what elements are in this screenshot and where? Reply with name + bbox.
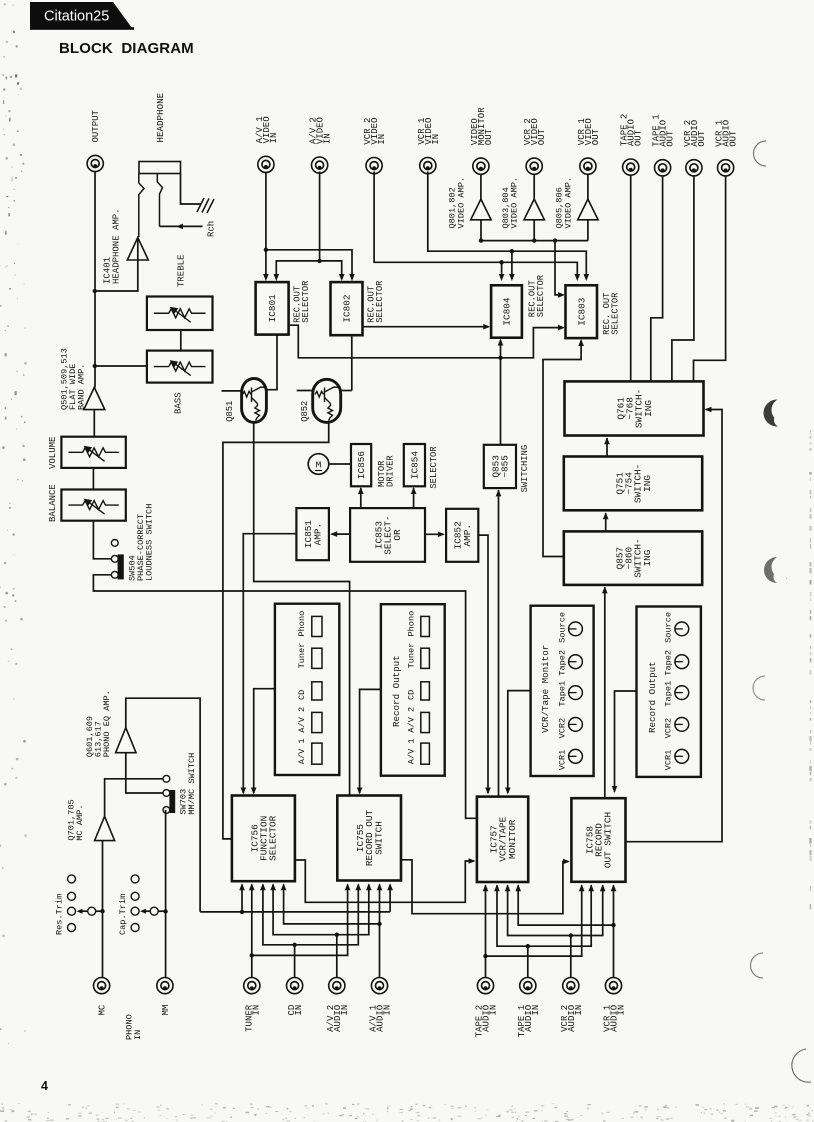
svg-text:IN: IN (133, 1030, 143, 1040)
wire IC801 output down to Q851 (266, 335, 277, 390)
IC IC853 selector logic (350, 508, 425, 562)
trimmer Res.Trim wiper (88, 907, 96, 915)
jack TUNER IN (244, 978, 260, 994)
jack VCR 1 AUDIO IN (605, 978, 621, 994)
scan left margin speckles (4, 134, 5, 135)
panel Record Output display left (381, 604, 445, 776)
svg-text:IN: IN (323, 133, 333, 144)
switch SW703 MM/MC lower contact (163, 807, 170, 814)
wire VCR 2 AUDIO IN to IC757/IC758 (569, 933, 573, 937)
wire selector display to IC756 (254, 689, 275, 793)
potentiometer BASS (147, 351, 213, 383)
wire VCR1 audio out (694, 176, 726, 382)
svg-text:Cap.Trim: Cap.Trim (118, 894, 128, 935)
wire VCR 1 AUDIO IN to IC757/IC758 (611, 923, 615, 927)
svg-text:Citation25: Citation25 (44, 9, 109, 25)
jack TAPE 2 AUDIO OUT (623, 159, 639, 175)
wire MC amp to SW703 (105, 779, 163, 817)
svg-text:OUT: OUT (634, 129, 644, 146)
wire motor to IC856 (329, 463, 351, 465)
svg-text:Record Output: Record Output (391, 655, 402, 727)
indicator CD segment (312, 682, 322, 700)
svg-text:CD: CD (406, 690, 416, 700)
indicator Record Output VCR2 knob (675, 718, 689, 732)
svg-text:Q851: Q851 (225, 401, 235, 422)
jack MC (94, 978, 110, 994)
svg-text:SWITCH: SWITCH (373, 821, 384, 855)
svg-text:HEADPHONE AMP.: HEADPHONE AMP. (111, 208, 121, 284)
switch SW504 open contact (111, 540, 118, 547)
svg-text:VCR1: VCR1 (664, 750, 674, 771)
svg-text:Tape1: Tape1 (664, 681, 674, 707)
wire video bus to IC803 input (555, 241, 563, 295)
svg-text:VCR1: VCR1 (557, 750, 567, 771)
svg-text:TREBLE: TREBLE (176, 255, 186, 287)
wire IC801 record bus to IC804/IC803 (289, 325, 563, 358)
panel VCR/Tape Monitor display (531, 606, 594, 776)
svg-text:IN: IN (251, 1005, 261, 1016)
jack VCR 2 AUDIO OUT (686, 160, 702, 176)
wire TAPE1 audio out (651, 176, 663, 382)
potentiometer TREBLE (147, 297, 213, 331)
wire VCR/Tape Monitor display to IC757 (508, 691, 531, 793)
wire A/V1 video in to IC801/IC802 (265, 172, 267, 279)
wire OUTPUT jack down to volume chain (94, 172, 96, 388)
wire MC jack to MC amp (102, 841, 104, 978)
wire IC401 output up to switch (137, 238, 139, 261)
svg-text:IN: IN (377, 134, 387, 145)
svg-text:OUT: OUT (729, 130, 739, 147)
wire IC853 to IC854 (413, 488, 415, 508)
svg-text:ING: ING (642, 549, 653, 566)
wire TAPE 2 AUDIO IN to IC757/IC758 (483, 954, 487, 958)
wire video amp output bus (480, 220, 482, 241)
wire phono eq amp output to phono bus (126, 698, 200, 912)
jack OUTPUT wire junction to BASS (93, 364, 97, 368)
jack A/V 2 VIDEO IN (312, 157, 328, 173)
wire IC851 to IC756 input (243, 534, 296, 793)
jack TAPE 1 AUDIO OUT (655, 160, 671, 176)
trimmer Cap.Trim wiper (150, 907, 158, 915)
wire junction to BASS box (95, 365, 147, 367)
svg-text:Source: Source (664, 612, 674, 643)
svg-text:SELECTOR: SELECTOR (268, 815, 279, 860)
amplifier Q701,705 MC AMP (95, 816, 115, 840)
svg-text:IC801: IC801 (267, 294, 278, 323)
svg-text:IC804: IC804 (502, 297, 513, 326)
switch bank Q857~860 SWITCHING (564, 531, 702, 585)
svg-text:OUTPUT: OUTPUT (91, 109, 101, 142)
jack VIDEO MONITOR OUT (473, 158, 489, 174)
jack VCR 1 VIDEO IN (420, 158, 436, 174)
svg-text:CD: CD (297, 690, 307, 700)
indicator A/V 1 segment (312, 743, 322, 764)
svg-text:Record Output: Record Output (647, 661, 658, 733)
svg-text:SELECTOR: SELECTOR (536, 274, 546, 317)
potentiometer VOLUME (61, 437, 125, 468)
svg-text:HEADPHONE: HEADPHONE (155, 92, 166, 142)
indicator Record Output Phono segment (421, 616, 430, 636)
motor M (308, 454, 329, 475)
switch SW504 lower contact (111, 571, 118, 578)
indicator VCR/Tape Monitor VCR1 knob (569, 749, 583, 763)
svg-text:VCR/Tape Monitor: VCR/Tape Monitor (540, 645, 551, 733)
svg-text:Phono: Phono (297, 611, 307, 637)
indicator A/V 2 segment (312, 712, 322, 732)
svg-text:ING: ING (643, 400, 654, 417)
IC IC852 amp (446, 509, 478, 562)
svg-text:SWITCHING: SWITCHING (520, 445, 530, 493)
svg-text:VCR2: VCR2 (664, 718, 674, 739)
switch Q853~855 (484, 445, 516, 488)
switch SW504 actuator bar (118, 554, 124, 579)
indicator Record Output A/V 1 segment (421, 743, 430, 764)
svg-text:IC854: IC854 (410, 451, 421, 480)
svg-text:PHONO EQ AMP.: PHONO EQ AMP. (102, 690, 112, 757)
amplifier Q803,804 VIDEO AMP (533, 174, 535, 200)
amplifier Q501,509,513 FLAT WIDE BAND AMP (84, 387, 105, 409)
wire MM jack to SW703 (165, 810, 167, 978)
svg-text:A/V 2: A/V 2 (297, 707, 307, 733)
switch SW703 actuator bar (169, 790, 175, 813)
jack A/V 1 VIDEO IN (258, 156, 274, 172)
jack VCR 1 AUDIO OUT (718, 160, 734, 176)
wire IC755 output bus to IC758 (401, 860, 569, 914)
wire VCR1 video in to IC804/IC803 (428, 172, 587, 279)
svg-text:Tape2: Tape2 (557, 650, 567, 676)
svg-text:BALANCE: BALANCE (48, 484, 58, 522)
svg-text:Tape1: Tape1 (557, 681, 567, 707)
switch bank Q751~754 SWITCHING (564, 457, 702, 511)
svg-text:SELECTOR: SELECTOR (301, 280, 311, 323)
wire A/V 2 AUDIO IN to IC756/IC755 (335, 933, 339, 937)
wire IC802 output down to Q852 (351, 335, 353, 390)
indicator Record Output Tuner segment (421, 648, 430, 668)
indicator Record Output Tape1 knob (675, 686, 689, 700)
wire IC758 output up to Q761 input (626, 410, 723, 842)
jack MM (157, 978, 173, 994)
indicator VCR/Tape Monitor Source knob (569, 622, 583, 636)
op-amp IC401 HEADPHONE AMP (127, 238, 148, 261)
svg-text:SELECTOR: SELECTOR (429, 446, 439, 489)
svg-text:DRIVER: DRIVER (386, 455, 396, 487)
wire IC852 to IC757 input (478, 535, 488, 793)
svg-text:IN: IN (617, 1005, 627, 1016)
svg-text:IN: IN (383, 1005, 393, 1016)
svg-text:BAND AMP.: BAND AMP. (77, 364, 87, 410)
svg-text:IC802: IC802 (342, 295, 353, 323)
svg-text:IN: IN (269, 133, 279, 144)
indicator Phono segment (312, 616, 322, 636)
wire VCR2 video in to IC804/IC803 (374, 172, 577, 279)
wire A/V 1 AUDIO IN to IC756/IC755 (377, 922, 381, 926)
wire headphone sleeve to ground (181, 174, 202, 205)
IC IC756 FUNCTION SELECTOR (232, 796, 295, 882)
svg-text:AMP.: AMP. (312, 523, 323, 546)
wire Rch feed with arrow (160, 225, 203, 227)
amplifier Q805,806 VIDEO AMP (587, 174, 589, 200)
wire Q857 to IC803 select feed (543, 341, 581, 557)
svg-text:A/V 1: A/V 1 (406, 738, 416, 764)
indicator VCR/Tape Monitor Tape2 knob (569, 655, 583, 669)
trimmer Res.Trim contacts (68, 875, 76, 883)
svg-text:VIDEO AMP.: VIDEO AMP. (563, 177, 573, 229)
indicator Record Output Source knob (675, 622, 689, 636)
svg-text:IN: IN (340, 1005, 350, 1016)
svg-text:M: M (316, 460, 322, 471)
svg-text:IN: IN (531, 1005, 541, 1016)
svg-text:IC803: IC803 (576, 297, 587, 326)
wire record bus down to Q853 (500, 358, 502, 445)
jack A/V 1 AUDIO IN (371, 978, 387, 994)
svg-text:Tuner: Tuner (406, 643, 416, 669)
svg-text:MM: MM (161, 1005, 171, 1016)
wire A/V2 video in to IC801/IC802 (319, 172, 321, 261)
switch SW703 MM/MC middle contact (163, 790, 170, 797)
wire VOLUME to BALANCE (92, 468, 94, 490)
svg-text:OUT: OUT (537, 128, 547, 145)
jack OUTPUT (87, 155, 103, 171)
svg-text:ING: ING (642, 475, 653, 492)
svg-text:VIDEO AMP.: VIDEO AMP. (456, 177, 466, 229)
svg-text:A/V 1: A/V 1 (297, 738, 307, 764)
svg-text:MM/MC SWITCH: MM/MC SWITCH (187, 753, 197, 815)
wire Q501 to VOLUME (93, 410, 95, 437)
svg-text:Q852: Q852 (300, 401, 310, 422)
svg-text:OUT: OUT (697, 130, 707, 147)
svg-text:4: 4 (41, 1079, 48, 1093)
wire phono eq amp input from SW703 (126, 753, 163, 793)
svg-text:IC856: IC856 (356, 451, 367, 480)
IC IC854 selector (404, 444, 425, 486)
wire Q751 to Q761 (606, 438, 608, 456)
jack VCR 2 AUDIO IN (563, 978, 579, 994)
wire CD IN to IC756/IC755 (292, 943, 296, 947)
trimmer Cap.Trim contacts (131, 875, 139, 883)
amplifier Q801,802 VIDEO AMP (480, 174, 482, 200)
wire phono bus to IC756/IC755 (200, 911, 390, 913)
wire Record Output display to IC755 (360, 689, 381, 793)
Citation25 header banner (30, 2, 132, 28)
jack A/V 2 AUDIO IN (329, 978, 345, 994)
indicator Record Output Tape2 knob (675, 655, 689, 669)
svg-text:IN: IN (489, 1005, 499, 1016)
wire Q852 emitter to IC756 input (223, 422, 329, 839)
svg-text:~855: ~855 (500, 455, 511, 478)
wire Record Output right display to IC758 (615, 691, 637, 792)
wire Q851 emitter to IC755 (254, 422, 350, 795)
headphone switch contact Rch (157, 174, 162, 227)
wire TAPE 1 AUDIO IN to IC757/IC758 (526, 944, 530, 948)
svg-text:IN: IN (431, 134, 441, 145)
svg-text:VIDEO AMP.: VIDEO AMP. (510, 177, 520, 229)
indicator VCR/Tape Monitor VCR2 knob (569, 718, 583, 732)
svg-text:AMP.: AMP. (462, 524, 473, 547)
panel function selector display (275, 604, 339, 775)
wire IC401 input from main node (95, 260, 138, 291)
wire TUNER IN to IC756/IC755 (250, 953, 254, 957)
IC IC851 amp (296, 508, 329, 560)
svg-text:OR: OR (392, 529, 403, 541)
jack TAPE 1 AUDIO IN (520, 978, 536, 994)
headphone jack SW401 (139, 162, 181, 174)
svg-text:IN: IN (294, 1005, 304, 1016)
node junction at output bus / IC401 (93, 289, 97, 293)
svg-text:A/V 2: A/V 2 (406, 707, 416, 733)
switch SW703 MM/MC upper contact (163, 775, 170, 782)
svg-text:SELECTOR: SELECTOR (375, 280, 385, 323)
jack VCR 2 VIDEO OUT (526, 158, 542, 174)
svg-text:IN: IN (574, 1005, 584, 1016)
scan right edge dark strip (810, 430, 811, 435)
IC IC757 VCR/TAPE MONITOR (477, 797, 528, 882)
svg-text:MC: MC (98, 1004, 108, 1015)
IC IC802 (331, 282, 363, 335)
chassis ground (197, 198, 214, 213)
indicator VCR/Tape Monitor Tape1 knob (569, 686, 583, 700)
IC IC856 motor driver (351, 444, 371, 486)
svg-text:Phono: Phono (406, 611, 416, 637)
scan punch hole marks right margin (754, 141, 767, 166)
IC IC801 (256, 282, 289, 335)
svg-text:Tape2: Tape2 (664, 650, 674, 676)
jack CD IN (287, 978, 303, 994)
svg-text:LOUDNESS SWITCH: LOUDNESS SWITCH (145, 504, 155, 581)
indicator Record Output VCR1 knob (675, 749, 689, 763)
wire IC757 up to Q853 (498, 490, 500, 797)
scan bottom edge noise band (226, 1121, 227, 1122)
switch SW504 upper contact (111, 555, 118, 562)
IC IC804 (491, 285, 522, 337)
indicator Record Output A/V 2 segment (421, 712, 430, 732)
svg-text:Res.Trim: Res.Trim (55, 894, 65, 935)
svg-text:Tuner: Tuner (297, 643, 307, 669)
wire IC758 up to Q857 (604, 587, 606, 798)
potentiometer BALANCE (61, 490, 125, 521)
IC IC755 RECORD OUT SWITCH (337, 796, 401, 881)
panel Record Output display right (637, 607, 701, 777)
jack TAPE 2 AUDIO IN (477, 978, 493, 994)
wire Q857 to Q751 (605, 513, 607, 531)
IC IC758 RECORD OUT SWITCH (571, 798, 625, 882)
wire TAPE2 audio out (630, 176, 632, 382)
svg-text:MC AMP.: MC AMP. (75, 804, 85, 840)
svg-text:Source: Source (557, 612, 567, 643)
svg-text:BLOCK DIAGRAM: BLOCK DIAGRAM (59, 40, 194, 57)
wire record bus up into IC804 (500, 340, 502, 358)
jack VCR 1 VIDEO OUT (580, 158, 596, 174)
wire TREBLE to BASS (180, 330, 182, 351)
wire IC853 to IC851 (332, 533, 351, 535)
svg-text:SELECTOR: SELECTOR (611, 292, 621, 335)
svg-text:OUT: OUT (484, 128, 494, 145)
IC IC803 (566, 285, 598, 338)
svg-text:BASS: BASS (173, 392, 183, 414)
wire BALANCE down to SW504 (93, 521, 111, 559)
headphone switch contact Lch (139, 174, 144, 238)
svg-text:Rch: Rch (207, 221, 217, 237)
svg-text:VCR2: VCR2 (557, 718, 567, 739)
wire SW504 output to IC757 tape monitor (93, 575, 477, 819)
jack VCR 2 VIDEO IN (366, 158, 382, 174)
amplifier Q601,609 613,617 PHONO EQ AMP (116, 728, 136, 753)
wire VCR2 audio out (672, 176, 694, 382)
wire IC853 to IC856 (360, 488, 362, 508)
indicator Tuner segment (312, 648, 322, 668)
svg-text:MONITOR: MONITOR (507, 819, 518, 859)
svg-text:OUT: OUT (666, 130, 676, 147)
switch bank Q761~768 SWITCHING (565, 381, 704, 435)
indicator Record Output CD segment (421, 682, 430, 700)
svg-text:VOLUME: VOLUME (48, 437, 58, 469)
transistor Q851 buffer (242, 379, 267, 423)
transistor Q852 buffer (313, 379, 341, 422)
svg-text:OUT: OUT (591, 128, 601, 145)
svg-text:OUT SWITCH: OUT SWITCH (603, 812, 614, 868)
wire IC853 to IC852 (425, 533, 444, 535)
wire IC756 output bus to IC757 (295, 860, 474, 902)
wire IC802 to IC804 select line (363, 326, 488, 328)
